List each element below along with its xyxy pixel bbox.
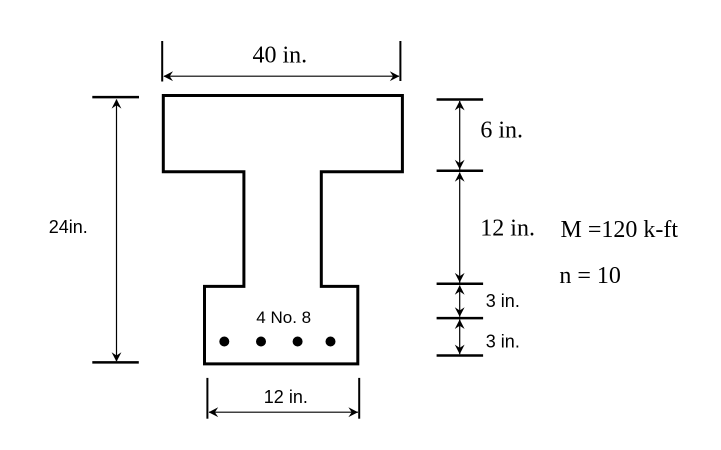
- rebar dot 2: [256, 337, 266, 347]
- top dimension: right extension line: [399, 41, 401, 81]
- tick at rebar level: [437, 317, 484, 320]
- 3 in. upper double arrow: [459, 286, 461, 317]
- svg-text:3 in.: 3 in.: [486, 332, 520, 352]
- left dimension: bottom tick: [92, 361, 139, 364]
- 6 in. double arrow: [459, 101, 461, 170]
- tick at bottom: [437, 354, 484, 357]
- top dimension: left extension line: [161, 41, 163, 82]
- svg-text:12 in.: 12 in.: [480, 216, 535, 242]
- bottom dimension: arrow line: [209, 411, 358, 413]
- rebar dot 3: [293, 337, 303, 347]
- svg-text:4 No. 8: 4 No. 8: [256, 308, 311, 327]
- bottom dimension: left arrowhead: [209, 407, 219, 417]
- svg-text:6 in.: 6 in.: [480, 118, 523, 144]
- rebar dot 4: [326, 337, 336, 347]
- svg-text:M =120 k-ft: M =120 k-ft: [561, 217, 679, 243]
- left dimension: top tick: [92, 96, 139, 99]
- left dimension: top arrowhead: [112, 99, 122, 109]
- 3 in. lower double arrow: [459, 320, 461, 355]
- left dimension: bottom arrowhead: [112, 352, 122, 362]
- svg-text:n = 10: n = 10: [559, 263, 621, 289]
- svg-text:40 in.: 40 in.: [253, 43, 308, 69]
- top dimension: left arrowhead: [163, 71, 173, 81]
- bottom dimension: right extension line: [358, 378, 360, 419]
- tick at top of bottom block: [437, 283, 484, 286]
- rebar dot 1: [219, 337, 229, 347]
- bottom dimension: right arrowhead: [348, 407, 358, 417]
- tick at top of flange: [437, 98, 484, 101]
- svg-text:24in.: 24in.: [49, 217, 88, 237]
- left dimension: vertical arrow line: [116, 100, 118, 362]
- bottom dimension: left extension line: [206, 378, 208, 419]
- 12 in. double arrow: [459, 173, 461, 283]
- svg-text:3 in.: 3 in.: [486, 291, 520, 311]
- tick at bottom of flange: [437, 169, 484, 172]
- top dimension: arrow line: [164, 75, 399, 77]
- svg-text:12 in.: 12 in.: [264, 387, 308, 407]
- T-beam cross-section outline: [163, 96, 402, 364]
- top dimension: right arrowhead: [390, 71, 400, 81]
